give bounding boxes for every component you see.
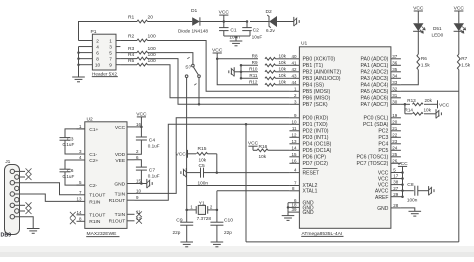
svg-text:24: 24 (392, 145, 398, 150)
svg-text:VDD: VDD (115, 152, 126, 158)
svg-text:R2: R2 (128, 34, 135, 40)
capacitor C10 22p (216, 210, 218, 222)
svg-text:100: 100 (148, 58, 156, 64)
power VCC at U2 pin16 (137, 116, 146, 118)
U2 pin stubs right (127, 126, 135, 128)
resistor R16 10k (257, 149, 268, 152)
wire U2 T1IN to PD0 net (135, 118, 290, 194)
svg-text:25: 25 (392, 152, 398, 157)
svg-text:8: 8 (96, 56, 99, 61)
wire pin28 to ground (401, 208, 415, 211)
wire XTAL2 down to crystal (186, 186, 188, 210)
svg-text:10k: 10k (259, 154, 267, 159)
svg-text:R10: R10 (249, 67, 258, 72)
ground below C1 C2 (230, 40, 243, 42)
wire C4 to VDD (135, 140, 142, 154)
capacitor C1 100n (223, 22, 225, 28)
svg-text:AVCC: AVCC (375, 189, 389, 195)
svg-text:11: 11 (292, 126, 297, 131)
svg-text:C8: C8 (407, 182, 414, 188)
svg-text:VEE: VEE (115, 158, 126, 164)
svg-text:7.3728: 7.3728 (197, 216, 212, 221)
svg-text:0.1uF: 0.1uF (148, 174, 160, 179)
diode D1 1N4148 (192, 17, 200, 25)
junction crystal right (216, 209, 219, 212)
wire C10 to ground (216, 225, 218, 242)
svg-text:U1: U1 (301, 41, 308, 47)
wire loop left vertical to PD1 (245, 124, 247, 242)
svg-text:10: 10 (95, 63, 101, 68)
resistor R1 20 (137, 20, 148, 23)
svg-text:PB1 (T1): PB1 (T1) (303, 63, 324, 69)
ground below C9 (180, 241, 193, 243)
svg-text:1.5k: 1.5k (421, 63, 431, 68)
svg-text:Diode 1N4148: Diode 1N4148 (178, 29, 208, 34)
svg-text:VCC: VCC (378, 176, 389, 182)
svg-text:VCC: VCC (248, 141, 259, 147)
svg-text:AREF: AREF (375, 195, 388, 201)
earth right of C8 (428, 186, 430, 195)
U1 GND stubs 6 18 39 (288, 202, 299, 204)
wire loop right vertical (458, 91, 460, 242)
IC U1 ATmega8535L-4AI (299, 47, 391, 229)
svg-text:14: 14 (291, 145, 297, 150)
junction PA7 divider (404, 103, 407, 106)
svg-text:13: 13 (76, 196, 82, 201)
J1 pin4 stub NC (15, 204, 26, 206)
wire P1 pin2 to R1 (79, 22, 138, 41)
wire R11 to U1 (276, 77, 290, 79)
svg-text:21: 21 (392, 126, 398, 131)
wire XTAL2 line (187, 185, 290, 187)
svg-text:30: 30 (392, 99, 398, 104)
svg-text:29: 29 (393, 192, 399, 197)
IC U2 MAX232EWE (85, 122, 127, 229)
svg-text:VCC: VCC (136, 111, 147, 117)
capacitor C6 0.1uF (65, 160, 85, 169)
U1 left pin stubs PB (289, 58, 299, 60)
svg-text:100: 100 (148, 34, 156, 40)
P1 right pin stubs (116, 40, 120, 42)
wire U2 R1OUT to PD1 net (135, 124, 290, 200)
J1 pin9 stub NC (19, 210, 25, 212)
wire R9 to U1 (276, 64, 290, 66)
wire D2 to earth (277, 21, 294, 23)
earth right of D2 (293, 17, 295, 26)
wire R8 to U1 (276, 58, 290, 60)
svg-text:10k: 10k (199, 157, 207, 162)
wire bar to R10 (241, 71, 258, 73)
svg-text:S?: S? (185, 64, 191, 70)
svg-text:VCC: VCC (115, 125, 126, 131)
svg-text:C7: C7 (149, 167, 156, 173)
svg-text:PD4 (OC1B): PD4 (OC1B) (303, 142, 332, 148)
crystal Y1 7.3728 (187, 209, 197, 211)
svg-text:9: 9 (109, 63, 112, 68)
junction C1 top (223, 20, 226, 23)
ground below C10 (211, 241, 224, 243)
svg-text:0.1uF: 0.1uF (148, 144, 160, 149)
wire PA5 to LED2 column (401, 90, 459, 92)
wire R16 to U1 PD5 (268, 149, 289, 151)
power VCC at R16 (248, 145, 257, 147)
svg-text:D1: D1 (191, 8, 198, 14)
power VCC at C1 (219, 14, 228, 16)
wire bar to R9 (241, 64, 258, 66)
svg-text:VCC: VCC (176, 151, 187, 157)
svg-text:C1+: C1+ (89, 127, 98, 133)
J1 pin6 stub NC (19, 176, 25, 178)
capacitor C8 100n (403, 190, 414, 192)
svg-text:10uF: 10uF (252, 34, 263, 39)
junction P1 gnd pin6 (77, 51, 80, 54)
wire R1 to D1 (148, 21, 193, 23)
svg-text:C10: C10 (224, 217, 233, 223)
U1 pin 7 XTAL2 stub (289, 185, 299, 187)
svg-text:R1: R1 (128, 15, 135, 21)
wire R12 to U1 (276, 84, 290, 86)
svg-text:R9: R9 (252, 60, 258, 65)
wire C5 to RESET node (204, 172, 217, 174)
ground below U1 GND pins (282, 215, 295, 217)
svg-text:C5: C5 (199, 163, 206, 169)
svg-text:VCC: VCC (212, 47, 223, 53)
svg-text:41: 41 (291, 60, 297, 65)
svg-text:PB4 (SS): PB4 (SS) (303, 83, 325, 89)
wire XTAL1 line (217, 190, 290, 192)
svg-text:PB0 (XCK/T0): PB0 (XCK/T0) (303, 57, 336, 63)
wire J1 pin5 to ground (15, 217, 34, 229)
svg-text:R1OUT: R1OUT (109, 198, 126, 204)
earth right of R14 (435, 109, 437, 118)
svg-text:C2-: C2- (89, 183, 97, 189)
svg-text:0.1uF: 0.1uF (63, 142, 75, 147)
svg-text:PA0 (ADC0): PA0 (ADC0) (360, 57, 388, 63)
svg-text:D2: D2 (266, 9, 273, 15)
svg-text:C9: C9 (176, 217, 183, 223)
wire D1 to VCC node (200, 21, 224, 23)
svg-text:R1OUT: R1OUT (109, 219, 126, 225)
svg-text:R7: R7 (461, 56, 467, 61)
svg-text:D51: D51 (433, 26, 442, 31)
svg-text:22p: 22p (224, 230, 232, 235)
svg-text:Y1: Y1 (199, 200, 205, 206)
power VCC at R8 rail (213, 52, 222, 54)
svg-text:PD5 (OC1A): PD5 (OC1A) (303, 148, 332, 154)
svg-text:0.1uF: 0.1uF (63, 174, 75, 179)
svg-text:10k: 10k (424, 108, 432, 113)
wire XTAL1 down to crystal (216, 191, 218, 210)
wire VCC to R8 (217, 58, 258, 60)
svg-text:PD1 (TXD): PD1 (TXD) (303, 122, 328, 128)
wire C1 C2 bottoms to ground (223, 31, 225, 36)
svg-text:C2+: C2+ (89, 158, 98, 164)
svg-text:10k: 10k (279, 60, 287, 65)
wire VCC node to C2 node (224, 21, 247, 23)
svg-text:20k: 20k (425, 98, 433, 103)
wire R15 to RESET node (208, 153, 217, 155)
svg-text:10: 10 (136, 188, 142, 193)
svg-text:10: 10 (291, 119, 297, 124)
svg-text:19: 19 (392, 113, 398, 118)
no-connect crosses U2 right pins 11 12 (136, 211, 142, 217)
svg-text:PC6 (TOSC1): PC6 (TOSC1) (356, 155, 388, 161)
wire PA7 down to R14 (404, 104, 406, 114)
junction c3-PB7 (198, 103, 201, 106)
resistor R5 100 (120, 64, 137, 66)
junction loop-PD1 (245, 123, 248, 126)
wire R2 to PB5 net (148, 41, 290, 92)
svg-text:PD3 (INT1): PD3 (INT1) (303, 135, 329, 141)
svg-text:PD0 (RXD): PD0 (RXD) (303, 116, 329, 122)
svg-text:P1: P1 (91, 29, 97, 35)
svg-text:LED0: LED0 (432, 33, 444, 38)
svg-text:27: 27 (393, 186, 399, 191)
wire C2 node to D2 (250, 21, 269, 23)
svg-text:GND: GND (114, 181, 125, 187)
junction U2 VCC (140, 126, 143, 128)
svg-text:C1: C1 (230, 28, 237, 34)
svg-text:T1IN: T1IN (115, 212, 126, 218)
U1 pin 28 GND stub (391, 207, 401, 209)
svg-text:28: 28 (393, 203, 399, 208)
svg-text:R15: R15 (198, 146, 207, 152)
svg-text:35: 35 (392, 67, 398, 72)
wire VEE to C7 (135, 160, 142, 167)
svg-text:PD7 (OC2): PD7 (OC2) (303, 161, 329, 167)
wire VCC outer to R12 (217, 59, 258, 85)
wire R10 to U1 (276, 71, 290, 73)
svg-text:GND: GND (303, 210, 315, 216)
junction P1 gnd pin10 (77, 63, 80, 66)
svg-text:20: 20 (148, 15, 154, 21)
svg-text:42: 42 (291, 67, 297, 72)
svg-text:100n: 100n (407, 197, 418, 202)
svg-text:16: 16 (291, 158, 297, 163)
svg-text:3: 3 (109, 44, 112, 49)
U1 pin 4 RESET stub (289, 172, 299, 174)
svg-text:PB3 (AIN1/OC0): PB3 (AIN1/OC0) (303, 76, 341, 82)
wire C7 to GND row (140, 170, 142, 183)
svg-text:PB5 (MOSI): PB5 (MOSI) (303, 89, 331, 95)
LED D51 LED0 (454, 23, 464, 31)
svg-text:Header 5X2: Header 5X2 (92, 72, 117, 77)
capacitor C7 0.1uF (136, 166, 147, 168)
wire C9 to ground (186, 225, 188, 242)
no-connect crosses U2 left pins 14 8 (70, 212, 76, 218)
resistor R14 10k (413, 112, 424, 115)
U1 right pin stubs PA (391, 58, 401, 60)
wire R14 to earth (424, 113, 436, 115)
svg-text:38: 38 (393, 180, 399, 185)
wire R9-R11 common bar (240, 65, 242, 78)
svg-text:10k: 10k (279, 67, 287, 72)
wire R3 to switch (148, 53, 193, 65)
svg-text:100n: 100n (229, 34, 240, 39)
wire switch c3 down to PB7 line (198, 78, 200, 105)
svg-text:PC3: PC3 (378, 135, 388, 141)
svg-text:R12: R12 (249, 80, 258, 85)
wire loop bottom horizontal (246, 241, 459, 243)
svg-text:XTAL1: XTAL1 (303, 189, 318, 195)
svg-text:7: 7 (109, 56, 112, 61)
svg-text:22p: 22p (173, 230, 181, 235)
svg-text:PB2 (AIN0/INT2): PB2 (AIN0/INT2) (303, 70, 342, 76)
svg-text:14: 14 (76, 210, 82, 215)
svg-text:6.2v: 6.2v (266, 28, 276, 33)
bottom page-edge gray strip (0, 246, 474, 257)
svg-text:R5: R5 (128, 58, 135, 64)
U1 right VCC AVCC AREF stubs (391, 172, 403, 174)
wire R4 to PB7 net (148, 59, 290, 105)
wire RESET to U1 (217, 172, 290, 174)
svg-text:PA6 (ADC6): PA6 (ADC6) (360, 96, 388, 102)
svg-text:R11: R11 (249, 73, 258, 78)
svg-text:R6: R6 (421, 56, 427, 61)
resistor R15 10k (197, 152, 208, 155)
wire R7 to PA5 and loop (458, 70, 460, 92)
svg-text:10k: 10k (279, 73, 287, 78)
svg-text:VCC: VCC (413, 5, 424, 11)
junction crystal left (185, 209, 188, 212)
svg-text:PC1 (SDA): PC1 (SDA) (363, 122, 389, 128)
svg-text:PB6 (MISO): PB6 (MISO) (303, 96, 331, 102)
wire U1 GND chain (287, 203, 289, 212)
wire GND row to earth (141, 183, 146, 185)
svg-text:40: 40 (291, 54, 297, 59)
capacitor C5 100n (200, 168, 202, 178)
svg-text:39: 39 (291, 207, 297, 212)
svg-text:R4: R4 (128, 52, 135, 58)
junction P1 gnd pin8 (77, 57, 80, 60)
svg-text:5: 5 (109, 50, 112, 55)
wire R13 to VCC netlabel (424, 103, 438, 105)
svg-text:33: 33 (392, 80, 398, 85)
U2 pin stubs left (77, 128, 85, 130)
svg-text:T1OUT: T1OUT (89, 193, 105, 199)
wire J1 pin2 to U2 T1OUT (15, 183, 77, 195)
earth left of C5 (185, 168, 187, 177)
svg-text:PA3 (ADC3): PA3 (ADC3) (360, 76, 388, 82)
resistor R13 20k (413, 103, 424, 106)
svg-text:T1IN: T1IN (115, 191, 126, 197)
svg-text:RESET: RESET (303, 170, 320, 176)
svg-text:U2: U2 (87, 117, 94, 123)
svg-text:R16: R16 (259, 144, 268, 150)
svg-text:R8: R8 (252, 54, 258, 59)
svg-text:PB7 (SCK): PB7 (SCK) (303, 102, 328, 108)
svg-text:43: 43 (291, 73, 297, 78)
resistor R3 100 (120, 52, 137, 54)
svg-text:C4: C4 (149, 137, 156, 143)
svg-text:12: 12 (291, 132, 297, 137)
svg-text:VCC: VCC (454, 5, 465, 11)
wire LED1 to R6 (417, 31, 419, 55)
svg-text:15: 15 (291, 152, 297, 157)
svg-text:6: 6 (96, 50, 99, 55)
svg-text:22: 22 (392, 132, 398, 137)
connector P1 Header 5X2 (92, 34, 116, 70)
ground below J1 pin5 (27, 228, 40, 230)
svg-text:PA1 (ADC1): PA1 (ADC1) (360, 63, 388, 69)
capacitor C9 22p (186, 210, 188, 222)
wire VCC to R15 (188, 153, 197, 155)
capacitor C4 0.1uF (140, 127, 142, 137)
svg-text:C2: C2 (253, 28, 260, 34)
diode D2 zener 6.2v (267, 15, 271, 28)
wire earth to bar (234, 71, 241, 73)
svg-text:GND: GND (377, 206, 389, 212)
wire R5 to PB6 net (148, 65, 290, 98)
svg-text:2: 2 (96, 38, 99, 43)
svg-text:PA2 (ADC2): PA2 (ADC2) (360, 70, 388, 76)
earth left of R9-R11 bar (233, 67, 235, 76)
resistor R7 1.5k (457, 54, 460, 69)
svg-text:VCC: VCC (439, 102, 450, 108)
U1 left pin stubs PD (289, 117, 299, 119)
svg-text:T1OUT: T1OUT (89, 213, 105, 219)
svg-text:4: 4 (96, 44, 99, 49)
svg-text:36: 36 (392, 60, 398, 65)
svg-text:PC2: PC2 (378, 129, 388, 135)
J1 pin1 stub NC (15, 170, 26, 172)
svg-text:PA7 (ADC7): PA7 (ADC7) (360, 102, 388, 108)
svg-text:PC4: PC4 (378, 142, 388, 148)
svg-text:PA4 (ADC4): PA4 (ADC4) (360, 83, 388, 89)
svg-text:32: 32 (392, 86, 398, 91)
svg-text:100: 100 (148, 46, 156, 52)
P1 left pin stubs (79, 40, 93, 42)
svg-text:1: 1 (109, 38, 112, 43)
junction bar R9 (240, 64, 243, 67)
ground below P1 (72, 76, 85, 78)
svg-text:PC5: PC5 (378, 148, 388, 154)
svg-text:31: 31 (392, 93, 398, 98)
junction VCC rail (216, 58, 219, 61)
wire R6 to PA4 (401, 70, 418, 85)
junction C2 top (246, 20, 249, 23)
junction bar R10 (240, 71, 243, 74)
wire LED2 to R7 (458, 31, 460, 55)
svg-text:C1-: C1- (89, 152, 97, 158)
earth right of U2 pin15 (146, 179, 148, 188)
power VCC right of U1 (398, 165, 407, 167)
wire PA7 node (401, 103, 410, 105)
svg-text:44: 44 (291, 80, 297, 85)
svg-text:37: 37 (392, 54, 398, 59)
power VCC at LED1 (414, 10, 423, 12)
wire P1 pins 4-10 ground chain (78, 47, 80, 65)
junction bar R11 (240, 77, 243, 80)
wire switch c2 to XTAL2 column (186, 78, 188, 186)
svg-text:R13: R13 (407, 98, 416, 103)
wire earth to C5 (186, 172, 200, 174)
svg-text:PC0 (SCL): PC0 (SCL) (364, 116, 389, 122)
svg-text:PA5 (ADC5): PA5 (ADC5) (360, 89, 388, 95)
svg-text:100n: 100n (198, 180, 209, 185)
resistor R4 100 (120, 58, 137, 60)
svg-text:34: 34 (392, 73, 398, 78)
svg-text:17: 17 (393, 174, 399, 179)
junction U2 GND (140, 182, 143, 185)
svg-text:10k: 10k (279, 80, 287, 85)
svg-text:20: 20 (392, 119, 398, 124)
wire C8 to earth (418, 190, 429, 192)
svg-text:23: 23 (392, 139, 398, 144)
wire J1 pin3 to U2 R1IN (15, 194, 77, 201)
svg-text:100: 100 (148, 52, 156, 58)
svg-text:R3: R3 (128, 46, 135, 52)
